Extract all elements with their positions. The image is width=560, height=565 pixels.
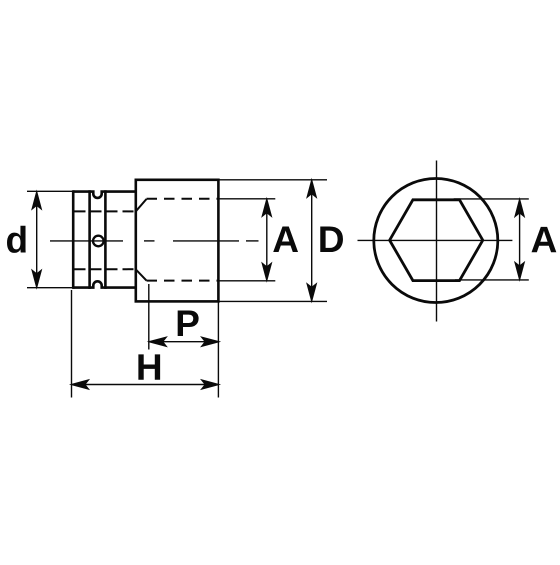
- front view: socket outer circle: [374, 179, 498, 303]
- dimension A (front view): extension lines: [454, 199, 529, 280]
- hidden lines: square drive hole (dashed): [75, 211, 135, 269]
- drive end outline (small cylinder with groove): [73, 190, 136, 289]
- front view: horizontal center line: [358, 239, 513, 241]
- label P: [178, 311, 199, 336]
- dimension A (front view): arrow line: [515, 200, 524, 280]
- label d: [7, 226, 26, 253]
- hidden lines: hex recess (dashed) with cone diagonals: [136, 199, 219, 281]
- label A (side view): [273, 227, 298, 252]
- dimension H: arrow line: [72, 380, 219, 389]
- front view: hex recess: [390, 200, 483, 281]
- dimension P: arrow line: [150, 337, 219, 346]
- dimension A (side view): arrow line: [262, 200, 271, 281]
- dimension A (side view): extension lines: [218, 199, 275, 281]
- socket body outline (large cylinder): [136, 180, 219, 302]
- pin hole circle on drive end: [93, 236, 104, 247]
- dimension H: extension line (left): [71, 290, 73, 398]
- dimension D: extension lines: [136, 180, 327, 302]
- dimension d: extension lines: [27, 191, 74, 287]
- dimension P: extension lines: [149, 284, 219, 398]
- label A (front view): [532, 227, 557, 252]
- label H: [138, 354, 160, 379]
- label D: [320, 227, 343, 252]
- dimension d: arrow line: [32, 192, 41, 287]
- dimension D: arrow line: [307, 181, 316, 301]
- front view: vertical center line: [436, 161, 438, 322]
- center line (side view, horizontal chain line): [50, 240, 259, 242]
